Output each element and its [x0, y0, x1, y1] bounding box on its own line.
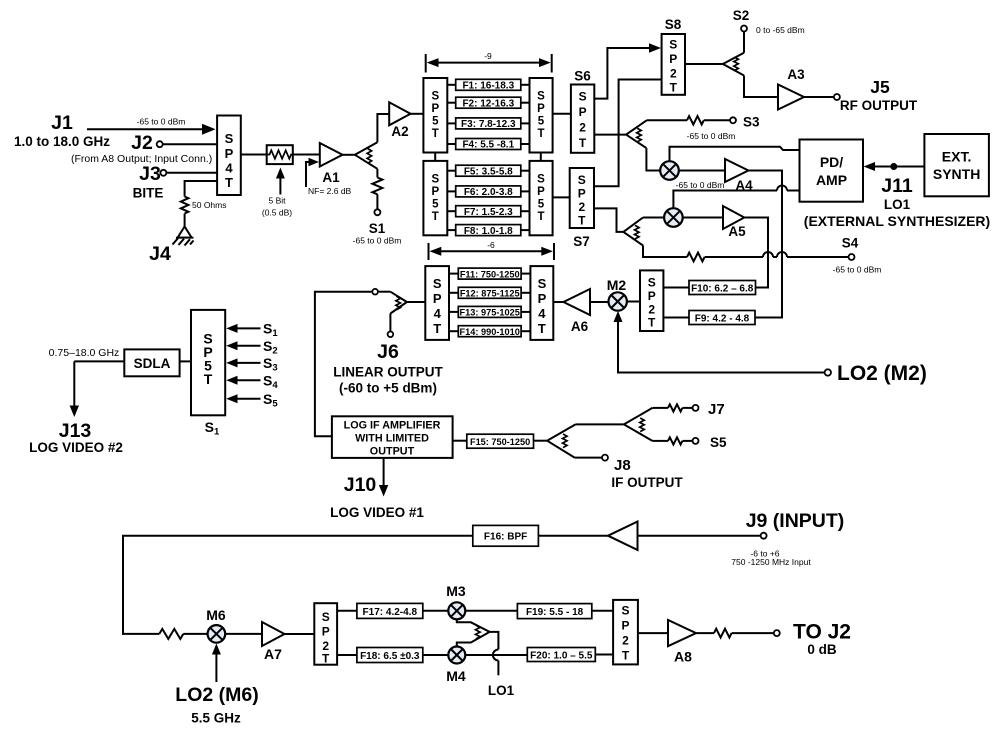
wire S8 out: [685, 63, 723, 65]
mixer (A5 path): [664, 208, 683, 227]
wire EXT SYNTH to PD/AMP: [864, 162, 925, 171]
switch SP2T (bottom-left): [314, 603, 337, 665]
dimension -9: [426, 51, 552, 73]
svg-text:TO J2: TO J2: [793, 621, 851, 644]
svg-text:50 Ohms: 50 Ohms: [192, 200, 227, 210]
filter F9: [663, 311, 755, 325]
NF arrow note: [306, 158, 352, 196]
wire A2 to SP5T: [411, 113, 424, 115]
svg-text:NF= 2.6 dB: NF= 2.6 dB: [308, 186, 352, 196]
svg-text:S: S: [433, 276, 442, 291]
wire M2 LO from LO2: [614, 311, 832, 376]
filter F4: [447, 139, 529, 151]
filter F5: [447, 165, 529, 177]
switch S6 SP2T: [571, 69, 594, 153]
svg-text:S2: S2: [733, 8, 750, 23]
filter F17: [337, 603, 448, 618]
filter F18: [337, 648, 448, 663]
wire mixer to A4: [678, 170, 725, 172]
svg-text:LINEAR OUTPUT: LINEAR OUTPUT: [333, 365, 443, 380]
splitter J6: [390, 292, 425, 314]
svg-text:F8: 1.0-1.8: F8: 1.0-1.8: [464, 226, 513, 237]
amplifier A5: [723, 206, 746, 239]
svg-text:LO1: LO1: [884, 197, 911, 212]
svg-text:-9: -9: [484, 51, 492, 61]
connector J3: [139, 163, 217, 185]
svg-text:P: P: [322, 625, 330, 639]
svg-text:F11: 750-1250: F11: 750-1250: [460, 269, 520, 279]
svg-text:S1: S1: [369, 221, 386, 236]
filter F11: [449, 268, 530, 279]
svg-text:T: T: [432, 211, 439, 223]
switch SP5T lower-left: [423, 161, 447, 235]
svg-text:J4: J4: [149, 243, 171, 265]
svg-text:M2: M2: [607, 277, 627, 293]
svg-text:0.75–18.0 GHz: 0.75–18.0 GHz: [49, 347, 120, 359]
wire SP5T-UR to S6: [553, 113, 571, 115]
mixer M4: [446, 647, 466, 685]
splitter J7/S5: [624, 408, 653, 441]
connector J6 lower branch: [388, 314, 394, 338]
svg-text:S6: S6: [574, 69, 591, 84]
svg-text:-65 to 0 dBm: -65 to 0 dBm: [353, 236, 402, 246]
svg-text:T: T: [648, 316, 656, 330]
svg-text:4: 4: [538, 306, 546, 321]
wire to SDLA: [74, 360, 124, 362]
svg-text:S: S: [669, 38, 677, 52]
svg-text:LO2 (M6): LO2 (M6): [175, 684, 258, 706]
wire S7 bottom out to splitter: [594, 208, 623, 232]
switch SP2T (bottom-right): [613, 600, 638, 665]
svg-text:A3: A3: [787, 67, 805, 82]
wire splitter to A3: [744, 76, 778, 98]
svg-text:(EXTERNAL SYNTHESIZER): (EXTERNAL SYNTHESIZER): [804, 213, 990, 229]
wire S4 line with resistor: [643, 246, 849, 262]
wire J1 input arrow: [87, 124, 216, 135]
switch SP2T (M2): [640, 270, 663, 331]
svg-text:F20: 1.0 – 5.5: F20: 1.0 – 5.5: [530, 650, 593, 661]
svg-text:T: T: [622, 649, 630, 663]
svg-text:T: T: [225, 175, 233, 190]
svg-text:2: 2: [578, 200, 585, 214]
splitter LO1: [457, 619, 490, 646]
svg-text:F7: 1.5-2.3: F7: 1.5-2.3: [464, 207, 513, 218]
filter F15: [453, 434, 547, 448]
svg-text:LO2 (M2): LO2 (M2): [837, 362, 927, 385]
svg-text:P: P: [538, 291, 547, 306]
EXT SYNTH box: [924, 134, 989, 196]
resistor 50 Ohms: [181, 181, 227, 227]
resistor to TO J2: [696, 629, 780, 638]
label J6 LINEAR OUTPUT: [333, 341, 443, 396]
svg-text:WITH LIMITED: WITH LIMITED: [355, 433, 429, 445]
wire splitter to mixer A4: [646, 148, 660, 170]
ground J4: [149, 227, 193, 266]
svg-text:M3: M3: [446, 583, 466, 599]
amplifier A3: [778, 67, 805, 110]
svg-text:P: P: [669, 52, 677, 66]
svg-text:BITE: BITE: [133, 186, 164, 201]
svg-text:2: 2: [622, 634, 629, 648]
svg-text:M4: M4: [446, 668, 466, 684]
svg-text:S5: S5: [263, 391, 278, 410]
filter F6: [447, 186, 529, 198]
splitter after F15: [547, 424, 575, 457]
svg-text:T: T: [579, 136, 587, 150]
wire S6 top out to S8 (arrow): [594, 43, 661, 98]
svg-text:-6: -6: [487, 240, 495, 250]
SDLA box: [124, 349, 179, 376]
svg-text:F12: 875-1125: F12: 875-1125: [460, 289, 520, 299]
svg-text:-65 to 0 dBm: -65 to 0 dBm: [137, 117, 186, 127]
svg-text:J9 (INPUT): J9 (INPUT): [746, 510, 845, 532]
svg-text:A1: A1: [322, 170, 340, 185]
connector J8: [575, 455, 684, 490]
wire splitter to A2: [377, 114, 389, 142]
wire M6 to A7: [225, 633, 262, 635]
svg-text:-65 to 0 dBm: -65 to 0 dBm: [833, 265, 882, 275]
svg-text:T: T: [537, 128, 544, 140]
wire A4 out to F9: [748, 171, 782, 318]
connector J7: [652, 401, 724, 418]
wire S7 top out to S8: [594, 80, 662, 187]
wire J6 upper branch to LOG IF: [315, 289, 391, 436]
splitter after S8: [723, 53, 744, 76]
filter F12: [449, 287, 530, 298]
svg-text:(-60 to +5 dBm): (-60 to +5 dBm): [339, 381, 437, 396]
svg-text:T: T: [204, 371, 213, 387]
wire SDLA to SP5T: [180, 360, 191, 362]
filter F10: [663, 281, 755, 295]
svg-text:S: S: [537, 91, 545, 103]
svg-text:SDLA: SDLA: [134, 356, 171, 371]
amplifier A4: [725, 159, 753, 193]
svg-text:J8: J8: [614, 457, 631, 474]
switch SP5T lower-right: [530, 161, 553, 235]
switch SP4T mid-left: [425, 266, 449, 340]
mixer M6: [206, 607, 226, 643]
svg-text:J6: J6: [377, 341, 399, 363]
svg-text:F14: 990-1010: F14: 990-1010: [460, 327, 520, 337]
svg-text:F18: 6.5 ±0.3: F18: 6.5 ±0.3: [360, 651, 420, 662]
svg-text:LOG VIDEO #1: LOG VIDEO #1: [330, 505, 424, 520]
switch S8 SP2T: [662, 17, 685, 95]
svg-text:5: 5: [538, 116, 545, 128]
wire to second splitter: [576, 423, 624, 425]
svg-text:F13: 975-1025: F13: 975-1025: [460, 308, 520, 318]
svg-text:S5: S5: [710, 435, 727, 450]
filter F2: [447, 97, 529, 109]
wire SP5T link right: [540, 153, 542, 161]
wire SP5T-LR to S7: [553, 196, 570, 198]
resistor to S3: [647, 116, 730, 124]
svg-text:S2: S2: [263, 338, 278, 357]
connector J9 INPUT: [638, 510, 845, 567]
svg-text:M6: M6: [206, 607, 226, 623]
svg-text:SYNTH: SYNTH: [933, 166, 980, 182]
svg-text:P: P: [621, 619, 629, 633]
connector J5: [804, 77, 918, 113]
mixer (A4 path): [660, 161, 679, 180]
svg-text:-65 to 0 dBm: -65 to 0 dBm: [676, 180, 725, 190]
svg-text:750 -1250 MHz Input: 750 -1250 MHz Input: [731, 557, 811, 567]
svg-text:2: 2: [648, 303, 655, 317]
svg-text:F1: 16-18.3: F1: 16-18.3: [462, 81, 514, 92]
wire M6 LO arrow: [212, 644, 221, 683]
svg-text:P: P: [431, 186, 439, 198]
svg-text:J7: J7: [708, 401, 725, 418]
svg-text:P: P: [225, 146, 234, 161]
connector J10 arrow: [330, 458, 424, 520]
svg-text:T: T: [670, 81, 678, 95]
svg-text:S7: S7: [573, 234, 590, 249]
connector J13 arrow: [29, 361, 123, 455]
splitter below S7: [623, 218, 643, 246]
filter F14: [449, 326, 530, 337]
svg-text:4: 4: [434, 306, 442, 321]
wire A6 to M2: [590, 301, 609, 303]
svg-text:J1: J1: [51, 112, 73, 134]
svg-text:F2: 12-16.3: F2: 12-16.3: [462, 98, 514, 109]
wire SP4T-right to A6: [553, 301, 563, 303]
svg-text:LO1: LO1: [488, 683, 515, 698]
svg-text:S3: S3: [743, 115, 760, 130]
switch S2: [733, 8, 805, 53]
svg-text:F5: 3.5-5.8: F5: 3.5-5.8: [464, 166, 513, 177]
svg-text:S: S: [621, 604, 629, 618]
switch S7 SP2T: [570, 168, 594, 249]
svg-text:S: S: [579, 90, 587, 104]
svg-text:F19: 5.5 - 18: F19: 5.5 - 18: [526, 607, 584, 618]
filter F19: [465, 604, 613, 619]
svg-text:5.5 GHz: 5.5 GHz: [191, 711, 241, 726]
connector J2: [131, 132, 217, 154]
svg-text:T: T: [322, 652, 330, 666]
svg-text:S: S: [322, 610, 330, 624]
svg-text:F15: 750-1250: F15: 750-1250: [470, 437, 530, 447]
switch SP5T upper-right: [530, 78, 553, 153]
svg-text:A6: A6: [571, 319, 589, 334]
filter F1: [447, 79, 529, 91]
connector J1 label: [14, 112, 110, 149]
connector LO2 (M6): [175, 684, 258, 726]
amplifier (J9 input): [608, 522, 638, 551]
dimension -6: [429, 240, 555, 260]
svg-text:F9: 4.2 - 4.8: F9: 4.2 - 4.8: [695, 314, 750, 325]
label TO J2: [793, 621, 851, 658]
svg-text:4: 4: [225, 161, 233, 176]
svg-text:J5: J5: [870, 77, 890, 97]
amplifier A1: [320, 143, 343, 185]
svg-text:0 dB: 0 dB: [807, 642, 837, 657]
switch SP5T upper-left: [423, 78, 447, 153]
svg-text:S4: S4: [842, 236, 859, 251]
svg-text:A8: A8: [674, 649, 692, 665]
wire M2 to SP2T: [627, 301, 640, 303]
wire mixer to A5: [682, 217, 723, 219]
svg-text:AMP: AMP: [816, 172, 847, 188]
svg-text:P: P: [433, 291, 442, 306]
arrow S5 into SP5T: [226, 391, 278, 410]
arrow S2 into SP5T: [226, 338, 277, 357]
filter F16: [473, 525, 539, 546]
svg-text:T: T: [432, 128, 439, 140]
svg-text:LOG VIDEO #2: LOG VIDEO #2: [29, 440, 123, 455]
svg-text:2: 2: [670, 67, 677, 81]
svg-text:S1: S1: [263, 321, 278, 340]
svg-text:T: T: [433, 321, 441, 336]
svg-text:J13: J13: [59, 420, 92, 442]
arrow S4 into SP5T: [226, 373, 278, 392]
wire splitter to mixer A5: [643, 217, 665, 219]
wire SP5T link left: [434, 153, 436, 161]
svg-text:S: S: [537, 174, 545, 186]
svg-text:S: S: [431, 174, 439, 186]
wire mixer A4 LO to PD/AMP: [670, 147, 800, 162]
svg-text:(0.5 dB): (0.5 dB): [262, 208, 292, 218]
svg-text:S3: S3: [263, 355, 278, 374]
svg-text:T: T: [537, 211, 544, 223]
svg-text:PD/: PD/: [820, 154, 843, 170]
svg-text:S4: S4: [263, 373, 278, 392]
filter F7: [447, 206, 529, 218]
svg-text:S: S: [431, 91, 439, 103]
svg-text:IF OUTPUT: IF OUTPUT: [611, 475, 683, 490]
svg-text:RF OUTPUT: RF OUTPUT: [840, 98, 918, 113]
wire amp to F16: [538, 535, 608, 537]
amplifier A8: [668, 620, 696, 665]
PD/AMP box: [800, 140, 864, 202]
svg-text:P: P: [579, 105, 587, 119]
connector S5: [652, 435, 727, 450]
amplifier A7: [262, 622, 285, 662]
filter F20: [465, 648, 613, 662]
svg-text:-65 to 0 dBm: -65 to 0 dBm: [687, 131, 736, 141]
svg-text:2: 2: [579, 121, 586, 135]
filter F13: [449, 306, 530, 317]
mixer M2: [607, 277, 627, 311]
switch S3: [687, 115, 760, 142]
resistor to S1: [372, 169, 382, 210]
svg-text:5: 5: [432, 199, 439, 211]
svg-text:P: P: [537, 103, 545, 115]
svg-text:5: 5: [432, 116, 439, 128]
svg-text:T: T: [578, 214, 586, 228]
svg-text:LOG IF AMPLIFIER: LOG IF AMPLIFIER: [344, 420, 441, 432]
svg-text:P: P: [431, 103, 439, 115]
switch SP4T input: [217, 116, 241, 196]
node J11 junction dot: [881, 163, 913, 212]
svg-text:S: S: [225, 131, 234, 146]
attenuator 5 Bit: [262, 145, 293, 217]
svg-text:S: S: [648, 276, 656, 290]
arrow S3 into SP5T: [226, 355, 277, 374]
svg-text:EXT.: EXT.: [942, 149, 972, 165]
switch SP4T mid-right: [530, 266, 553, 340]
mixer M3: [446, 583, 466, 619]
svg-text:F3: 7.8-12.3: F3: 7.8-12.3: [461, 119, 516, 130]
arrow S1 into SP5T: [226, 321, 278, 340]
svg-text:A2: A2: [391, 124, 408, 139]
svg-text:P: P: [537, 186, 545, 198]
svg-text:J11: J11: [881, 175, 913, 197]
wire A7 to SP2T: [285, 633, 315, 635]
switch SP5T (SDLA): [191, 310, 225, 415]
svg-text:5 Bit: 5 Bit: [268, 196, 286, 206]
svg-text:A5: A5: [728, 224, 746, 239]
svg-text:F10: 6.2 – 6.8: F10: 6.2 – 6.8: [691, 284, 754, 295]
svg-text:T: T: [538, 321, 546, 336]
svg-text:5: 5: [538, 199, 545, 211]
svg-text:A7: A7: [264, 646, 282, 662]
wire S6 bottom out: [594, 134, 626, 136]
svg-text:F16: BPF: F16: BPF: [484, 532, 527, 543]
amplifier A2: [389, 102, 410, 139]
wire A5 out to F10: [744, 218, 768, 288]
svg-text:F17: 4.2-4.8: F17: 4.2-4.8: [363, 607, 418, 618]
svg-text:J10: J10: [344, 474, 377, 496]
switch S4: [833, 236, 882, 275]
filter F3: [447, 118, 529, 130]
wire mixer A5 LO to PD/AMP: [673, 186, 799, 209]
wire SP2T to A8: [638, 632, 668, 634]
svg-text:OUTPUT: OUTPUT: [370, 446, 415, 458]
svg-text:P: P: [578, 187, 586, 201]
svg-text:0 to -65 dBm: 0 to -65 dBm: [756, 25, 805, 35]
switch S1: [353, 209, 402, 245]
svg-text:J3: J3: [139, 163, 161, 185]
svg-text:1.0 to 18.0 GHz: 1.0 to 18.0 GHz: [14, 134, 110, 149]
LOG IF AMPLIFIER box: [332, 416, 453, 458]
wire SP4T to attenuator: [241, 154, 267, 156]
wire attenuator to A1: [293, 154, 320, 156]
svg-text:F6: 2.0-3.8: F6: 2.0-3.8: [464, 187, 513, 198]
splitter below S6: [626, 120, 647, 148]
filter F8: [447, 225, 529, 237]
splitter after A1: [343, 142, 378, 169]
svg-text:S: S: [578, 173, 586, 187]
svg-text:S: S: [538, 276, 547, 291]
svg-text:J2: J2: [131, 132, 153, 154]
amplifier A6: [564, 289, 591, 334]
svg-text:S1: S1: [205, 419, 220, 438]
svg-text:P: P: [648, 289, 656, 303]
wire LO1: [488, 632, 515, 698]
svg-text:F4: 5.5 -8.1: F4: 5.5 -8.1: [462, 140, 514, 151]
svg-text:S8: S8: [665, 17, 682, 32]
wire F16 to M6 (long): [123, 536, 473, 639]
